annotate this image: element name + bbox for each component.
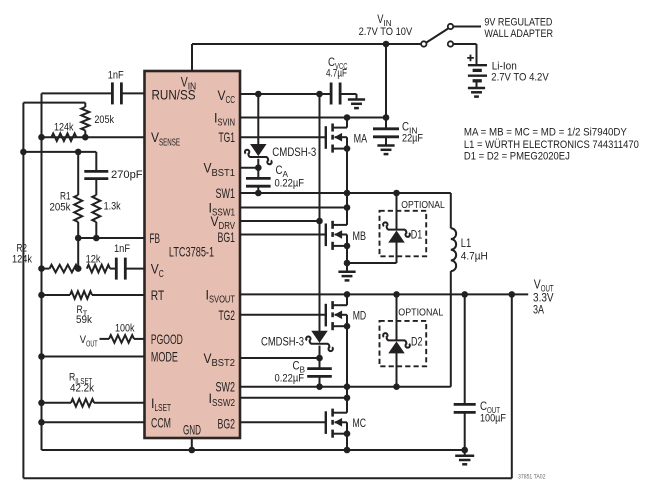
svg-text:270pF: 270pF xyxy=(111,169,143,181)
wire VSENSE row xyxy=(42,136,145,138)
wire ISSW1 row xyxy=(240,207,347,209)
svg-text:CCM: CCM xyxy=(151,415,171,430)
wire FB row xyxy=(78,237,144,239)
capacitor COUT 100uF xyxy=(464,294,466,404)
node CCM-gnd junction xyxy=(38,419,45,426)
node D2 anode junction xyxy=(393,383,400,390)
ground CIN xyxy=(377,144,394,147)
svg-text:12k: 12k xyxy=(86,254,101,266)
svg-text:59k: 59k xyxy=(76,314,92,326)
resistor 124k VSENSE xyxy=(51,133,76,141)
svg-text:37851 TA02: 37851 TA02 xyxy=(518,474,546,481)
svg-text:205k: 205k xyxy=(94,114,114,126)
svg-text:4.7µF: 4.7µF xyxy=(326,67,347,79)
wire ground return row xyxy=(42,449,465,451)
node CB-SW2 junction xyxy=(316,383,323,390)
resistor R1 205k xyxy=(74,195,82,222)
capacitor 270pF xyxy=(84,170,108,173)
node VSENSE-gnd junction xyxy=(38,134,45,141)
wire VIN pin to rail xyxy=(191,44,193,71)
svg-text:RUN/SS: RUN/SS xyxy=(152,88,196,103)
battery BT1 Li-Ion xyxy=(468,64,487,66)
wire SW2 row xyxy=(240,386,451,388)
wire VOUT node row xyxy=(23,151,96,153)
wire SW1 row xyxy=(240,192,451,194)
resistor 12k xyxy=(87,265,110,273)
node MD-MC junction on SW2 xyxy=(344,383,351,390)
svg-text:1nF: 1nF xyxy=(108,70,124,82)
svg-text:MC: MC xyxy=(353,417,367,430)
node MB source-D1 junction xyxy=(344,260,351,267)
svg-text:42.2k: 42.2k xyxy=(70,383,94,395)
node MODE-gnd junction xyxy=(38,353,45,360)
svg-text:0.22µF: 0.22µF xyxy=(275,177,305,189)
capacitor CIN 22uF xyxy=(385,118,387,129)
wire VOUT feedback down xyxy=(511,294,513,478)
wire VIN rail xyxy=(192,43,421,45)
svg-text:LTC3785-1: LTC3785-1 xyxy=(169,244,214,260)
node VOUT feedback junction xyxy=(509,291,516,298)
switch SW wall-adapter/battery selector xyxy=(421,41,426,46)
svg-text:BG1: BG1 xyxy=(218,230,236,245)
wire VC row xyxy=(42,268,50,270)
node VCC-VDRV junction xyxy=(316,91,323,98)
wire VCC row xyxy=(240,93,331,95)
node MA drain junction xyxy=(344,114,351,121)
wire BG2 to MC gate xyxy=(240,421,326,423)
svg-text:OPTIONAL: OPTIONAL xyxy=(398,307,443,318)
wire left ground rail xyxy=(41,93,43,450)
wire MC source to ground row xyxy=(346,434,348,450)
node VIN-CIN junction xyxy=(383,41,390,48)
svg-text:TG1: TG1 xyxy=(219,130,236,145)
transistor MB xyxy=(325,224,327,247)
node ISSW2 junction xyxy=(344,395,351,402)
capacitor 1nF VC xyxy=(110,268,116,270)
svg-text:PGOOD: PGOOD xyxy=(151,332,183,347)
wire VDRV row xyxy=(240,220,320,222)
svg-text:OPTIONAL: OPTIONAL xyxy=(401,200,445,211)
node RT-gnd junction xyxy=(38,292,45,299)
diode CMDSH-3 bootstrap 1 xyxy=(251,145,266,156)
transistor MD xyxy=(325,304,327,327)
svg-text:1nF: 1nF xyxy=(114,243,130,255)
wire RUN/SS row left xyxy=(42,92,113,94)
wire bottom feedback row xyxy=(23,477,511,479)
node D2 cathode junction xyxy=(393,291,400,298)
wire BG1 to MB gate xyxy=(240,234,326,236)
transistor MA xyxy=(325,126,327,149)
ground battery xyxy=(468,87,485,90)
ground main xyxy=(464,450,466,456)
svg-text:MODE: MODE xyxy=(151,350,178,365)
wire MB drain to SW1 xyxy=(346,193,348,225)
wire CCM row xyxy=(42,421,145,423)
wire 270pF top lead xyxy=(95,152,97,172)
wire D2 cathode from VOUT xyxy=(396,294,398,340)
svg-text:1.3k: 1.3k xyxy=(104,201,121,213)
ground MB source xyxy=(346,263,348,272)
node R1-FB junction xyxy=(75,235,82,242)
wire VCC-VDRV-bootstrap2 vertical xyxy=(319,94,321,331)
svg-text:205k: 205k xyxy=(50,202,71,214)
svg-text:9V REGULATED: 9V REGULATED xyxy=(484,16,552,28)
svg-text:124k: 124k xyxy=(12,254,32,266)
svg-text:RT: RT xyxy=(151,288,165,303)
node VCC-diode junction xyxy=(255,91,262,98)
wire ILSET row xyxy=(42,402,72,404)
node COUT ground junction xyxy=(461,447,468,454)
op-amp U1 LTC3785-1 IC body xyxy=(145,71,241,438)
svg-text:3.3V: 3.3V xyxy=(533,291,554,304)
wire VCC to diode anode xyxy=(257,94,259,145)
transistor MC xyxy=(325,411,327,434)
node GND pin junction xyxy=(189,447,196,454)
node MA-MB junction on SW1 xyxy=(344,190,351,197)
resistor RILSET 42.2k xyxy=(71,399,94,407)
node COUT junction xyxy=(461,291,468,298)
svg-text:MA = MB = MC = MD = 1/2 Si7940: MA = MB = MC = MD = 1/2 Si7940DY xyxy=(464,126,628,138)
svg-text:MD: MD xyxy=(353,310,367,323)
wire D1 cathode from SW1 xyxy=(396,193,398,230)
wire MD drain to VOUT xyxy=(346,294,348,305)
wire VOUT row xyxy=(240,293,528,295)
wire TG2 to MD gate xyxy=(240,314,326,316)
capacitor CA 0.22uF xyxy=(246,177,271,180)
capacitor CB 0.22uF xyxy=(307,367,332,370)
svg-text:CMDSH-3: CMDSH-3 xyxy=(272,146,316,159)
svg-text:124k: 124k xyxy=(54,121,74,133)
node CIN junction xyxy=(383,114,390,121)
wire ISSW2 row xyxy=(240,397,347,399)
node ILSET-gnd junction xyxy=(38,400,45,407)
resistor R2 124k xyxy=(50,265,79,273)
wire RT row xyxy=(42,294,71,296)
resistor 205k vertical xyxy=(81,107,89,131)
svg-text:2.7V TO 10V: 2.7V TO 10V xyxy=(359,26,413,38)
svg-text:L1: L1 xyxy=(461,237,472,250)
svg-text:WALL ADAPTER: WALL ADAPTER xyxy=(484,28,553,40)
node 124k-205k junction xyxy=(82,134,89,141)
wire FB to R2 vertical xyxy=(77,238,79,269)
node MD drain junction xyxy=(344,291,351,298)
wire MB source down xyxy=(346,246,348,263)
diode CMDSH-3 bootstrap 2 xyxy=(312,331,327,342)
node D1 cathode junction xyxy=(393,190,400,197)
node VOUT riser junction xyxy=(20,149,27,156)
svg-text:FB: FB xyxy=(150,231,161,246)
svg-text:0.22µF: 0.22µF xyxy=(275,372,305,384)
svg-text:SW1: SW1 xyxy=(216,186,236,201)
wire VIN rail drop to CIN xyxy=(385,44,387,118)
wire MODE row xyxy=(42,356,145,358)
wire 205k top row xyxy=(23,102,85,104)
node VBST2 junction xyxy=(316,355,323,362)
wire switch top contact to adapter xyxy=(453,26,481,28)
node VBST1 junction xyxy=(255,164,262,171)
node 1.3k-FB junction xyxy=(93,235,100,242)
svg-text:MB: MB xyxy=(353,230,367,243)
wire R1 top lead xyxy=(77,152,79,195)
wire ISVIN row xyxy=(240,117,386,119)
svg-text:100µF: 100µF xyxy=(480,413,506,425)
resistor RT 59k xyxy=(70,291,92,299)
wire VBST1 row xyxy=(240,167,258,169)
node R2 left junction xyxy=(38,265,45,272)
svg-text:L1 = WÜRTH ELECTRONICS 7443114: L1 = WÜRTH ELECTRONICS 744311470 xyxy=(464,139,639,151)
node R2-12k junction xyxy=(75,265,82,272)
resistor 100k xyxy=(109,335,134,343)
capacitor 1nF RUN/SS xyxy=(111,82,114,104)
svg-text:CMDSH-3: CMDSH-3 xyxy=(261,335,304,348)
wire MD source to SW2 xyxy=(346,326,348,387)
node R1 top junction xyxy=(75,149,82,156)
wire left VOUT riser xyxy=(22,103,24,479)
svg-text:SW2: SW2 xyxy=(216,380,236,395)
svg-text:2.7V TO 4.2V: 2.7V TO 4.2V xyxy=(491,72,549,84)
node VDRV junction xyxy=(316,218,323,225)
wire MA drain to ISVIN xyxy=(346,118,348,128)
inductor L1 4.7uH xyxy=(450,193,452,228)
wire VBST2 row xyxy=(240,357,320,359)
wire TG1 to MA gate xyxy=(240,136,326,138)
diode D1 schottky optional xyxy=(389,231,404,242)
svg-text:4.7µH: 4.7µH xyxy=(461,251,488,263)
diode D2 schottky optional xyxy=(389,342,404,353)
wire switch bottom contact to battery xyxy=(453,43,476,45)
wire D1 anode to MB source xyxy=(396,242,398,263)
svg-text:GND: GND xyxy=(183,423,201,438)
svg-text:3A: 3A xyxy=(533,304,544,317)
wire GND pin drop xyxy=(191,438,193,450)
svg-text:22µF: 22µF xyxy=(402,133,423,145)
svg-text:D1: D1 xyxy=(411,227,423,241)
svg-text:100k: 100k xyxy=(115,323,135,335)
svg-text:BG2: BG2 xyxy=(218,417,236,432)
capacitor CVCC 4.7uF xyxy=(330,83,333,105)
wire D2 dashed box xyxy=(380,321,427,366)
svg-text:TG2: TG2 xyxy=(219,308,236,323)
ground CVCC xyxy=(356,94,358,100)
wire MC drain to SW2 xyxy=(346,387,348,413)
node ISSW1 junction xyxy=(344,204,351,211)
svg-text:D1 = D2 = PMEG2020EJ: D1 = D2 = PMEG2020EJ xyxy=(464,151,570,163)
wire MA source to SW1 xyxy=(346,149,348,193)
wire D1 dashed box xyxy=(380,211,427,256)
wire D2 anode to SW2 xyxy=(396,353,398,387)
svg-text:MA: MA xyxy=(354,133,368,146)
resistor 1.3k xyxy=(92,195,100,222)
wire PGOOD lead xyxy=(100,338,110,340)
node CA-SW1 junction xyxy=(255,190,262,197)
svg-text:D2: D2 xyxy=(411,335,423,349)
node MC source junction xyxy=(344,447,351,454)
